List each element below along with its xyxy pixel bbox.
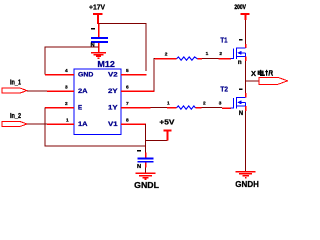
T2 dash mark: [239, 88, 242, 89]
capacitor C1 plates: [91, 38, 108, 42]
wire pin 7 to inductor L2: [135, 107, 151, 109]
wire V1 vertical to C2: [145, 124, 147, 152]
capacitor C2 minus mark: [137, 150, 141, 152]
ground symbol GNDH: [236, 172, 256, 178]
T2 gate pin lead: [222, 107, 231, 109]
svg-text:2: 2: [203, 101, 206, 107]
capacitor C2 bottom lead: [145, 163, 147, 168]
svg-text:8: 8: [126, 118, 129, 124]
wire 200V to T1 drain: [245, 20, 247, 44]
T1 drain pin: [245, 44, 247, 48]
wire X node to port: [246, 80, 260, 82]
T2 body-diode arrow: [237, 100, 241, 104]
port X label ji glyph: [265, 70, 272, 76]
IC U1 pin 1 stub: [60, 123, 74, 125]
svg-text:M12: M12: [97, 59, 115, 69]
IC U1 pin 8 stub: [121, 123, 135, 125]
capacitor C1 minus mark: [91, 28, 95, 30]
wire pin 6 to inductor L1: [135, 90, 155, 92]
svg-text:In_2: In_2: [10, 113, 21, 120]
wire X node to T2 drain: [245, 81, 247, 93]
T2 drain pin: [245, 93, 247, 98]
svg-text:GND: GND: [78, 72, 94, 79]
svg-text:+17V: +17V: [89, 3, 105, 12]
svg-text:+5V: +5V: [159, 117, 174, 126]
svg-text:4: 4: [65, 68, 68, 74]
wire capacitor C1 bottom: [98, 43, 100, 53]
svg-text:5: 5: [126, 68, 129, 74]
svg-text:V1: V1: [108, 121, 118, 128]
T1 body-diode arrow: [237, 51, 241, 55]
wire +17V node down to capacitor C1: [98, 24, 100, 38]
T1 gate pin lead: [219, 58, 231, 60]
svg-text:T1: T1: [220, 35, 227, 44]
svg-text:GNDH: GNDH: [235, 179, 259, 189]
IC U1 pin 6 stub: [121, 90, 135, 92]
wire GND branch to pin 4: [45, 74, 61, 76]
svg-text:N: N: [239, 111, 243, 117]
wire T2 source to GNDH: [245, 111, 247, 171]
svg-text:V2: V2: [108, 72, 118, 79]
ground symbol GNDL: [136, 173, 156, 179]
power +17V bar symbol: [93, 14, 103, 24]
IC U1 pin 3 stub: [60, 90, 74, 92]
capacitor C2 plates: [138, 159, 154, 162]
IC U1 body: [74, 69, 121, 135]
capacitor C2 top lead: [145, 146, 147, 152]
IC U1 pin 4 stub: [60, 74, 74, 76]
wire cap bottom to pin4 branch: [45, 47, 99, 74]
svg-text:GNDL: GNDL: [134, 180, 159, 190]
wire pin 8 to +5V node: [135, 123, 146, 125]
capacitor C2 top pin: [145, 152, 147, 157]
svg-text:2A: 2A: [78, 88, 88, 95]
wire In_2 to pin 1: [27, 123, 47, 125]
svg-text:2: 2: [165, 52, 168, 58]
svg-text:1A: 1A: [78, 121, 88, 128]
svg-text:3: 3: [219, 101, 222, 107]
port In_2 connector: [2, 122, 27, 127]
wire pin 5 to V2 column: [135, 74, 147, 76]
transistor T2 MOSFET symbol: [231, 97, 246, 109]
inductor L2 left lead: [167, 107, 177, 109]
wire In_1 to pin 3 red segment: [47, 90, 60, 92]
T2 source pin: [245, 106, 247, 111]
wire In_2 to pin 1 red segment: [47, 123, 60, 125]
wire E net vertical run: [45, 108, 146, 147]
wire pin 2 to V1 node: [45, 107, 61, 109]
svg-text:2: 2: [219, 51, 222, 57]
svg-text:200V: 200V: [234, 4, 246, 11]
svg-text:n: n: [238, 59, 242, 66]
wire L1 to T1 gate: [202, 58, 219, 60]
power 200V bar symbol: [241, 14, 250, 20]
svg-text:X: X: [251, 69, 256, 78]
wire In_1 to pin 3: [27, 90, 47, 92]
inductor L1 winding: [177, 57, 198, 60]
inductor L1 right lead: [198, 58, 203, 60]
wire +5V branch: [146, 140, 168, 142]
transistor T1 MOSFET symbol: [231, 47, 246, 59]
wire 1Y run to L2: [151, 107, 168, 109]
wire T1 source to X node: [245, 61, 247, 81]
IC U1 pin 2 stub: [60, 107, 74, 109]
ground symbol under C1: [91, 53, 106, 59]
svg-text:2: 2: [65, 101, 68, 107]
svg-text:N: N: [137, 164, 141, 170]
T1 dash mark: [239, 39, 242, 40]
wire L2 to T2 gate: [202, 107, 223, 109]
svg-text:1: 1: [66, 118, 69, 124]
inductor L1 left lead: [155, 58, 177, 60]
port X connector: [259, 77, 287, 84]
inductor L2 right lead: [196, 107, 202, 109]
svg-text:1: 1: [206, 51, 209, 57]
wire +17V node to V2 column: [98, 24, 146, 72]
svg-text:In_1: In_1: [10, 80, 21, 87]
svg-text:1: 1: [167, 101, 170, 107]
svg-text:7: 7: [126, 101, 129, 107]
svg-text:6: 6: [126, 85, 129, 91]
svg-text:T2: T2: [220, 85, 228, 94]
inductor L2 winding: [177, 106, 196, 109]
wire 2Y vertical to L1: [154, 59, 160, 92]
IC U1 pin 5 stub: [121, 74, 135, 76]
svg-text:2Y: 2Y: [108, 88, 119, 95]
port In_1 connector: [2, 88, 27, 93]
T1 source pin: [245, 57, 247, 62]
svg-text:1Y: 1Y: [108, 105, 119, 112]
IC U1 pin 7 stub: [121, 107, 135, 109]
wire C2 to GNDL: [145, 168, 147, 174]
svg-text:E: E: [78, 105, 82, 112]
power +5V bar symbol: [164, 131, 172, 141]
port X label dian glyph: [258, 70, 264, 76]
svg-text:3: 3: [65, 85, 68, 91]
